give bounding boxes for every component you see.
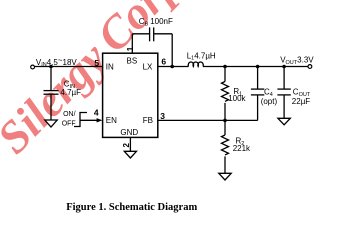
svg-text:3: 3 [160,111,165,121]
svg-text:5: 5 [94,58,99,68]
svg-text:IN: IN [106,62,114,71]
svg-text:Figure 1. Schematic Diagram: Figure 1. Schematic Diagram [66,202,197,213]
svg-text:22µF: 22µF [292,97,311,106]
svg-text:OFF: OFF [62,120,76,127]
svg-text:(opt): (opt) [261,97,278,106]
svg-text:VOUT3.3V: VOUT3.3V [280,56,314,66]
svg-text:L14.7µH: L14.7µH [187,51,216,61]
svg-text:100nF: 100nF [150,17,173,26]
svg-text:BS: BS [127,56,138,65]
svg-text:1: 1 [126,46,135,51]
svg-text:6: 6 [161,57,166,67]
svg-text:FB: FB [143,116,153,125]
svg-text:GND: GND [120,128,138,137]
svg-text:221k: 221k [233,144,251,153]
svg-text:100k: 100k [228,94,246,103]
svg-text:4: 4 [94,108,99,118]
svg-text:EN: EN [106,116,117,125]
svg-text:4.7µF: 4.7µF [60,88,81,97]
svg-text:ON/: ON/ [63,111,76,118]
svg-text:LX: LX [143,62,153,71]
svg-text:2: 2 [122,143,131,148]
